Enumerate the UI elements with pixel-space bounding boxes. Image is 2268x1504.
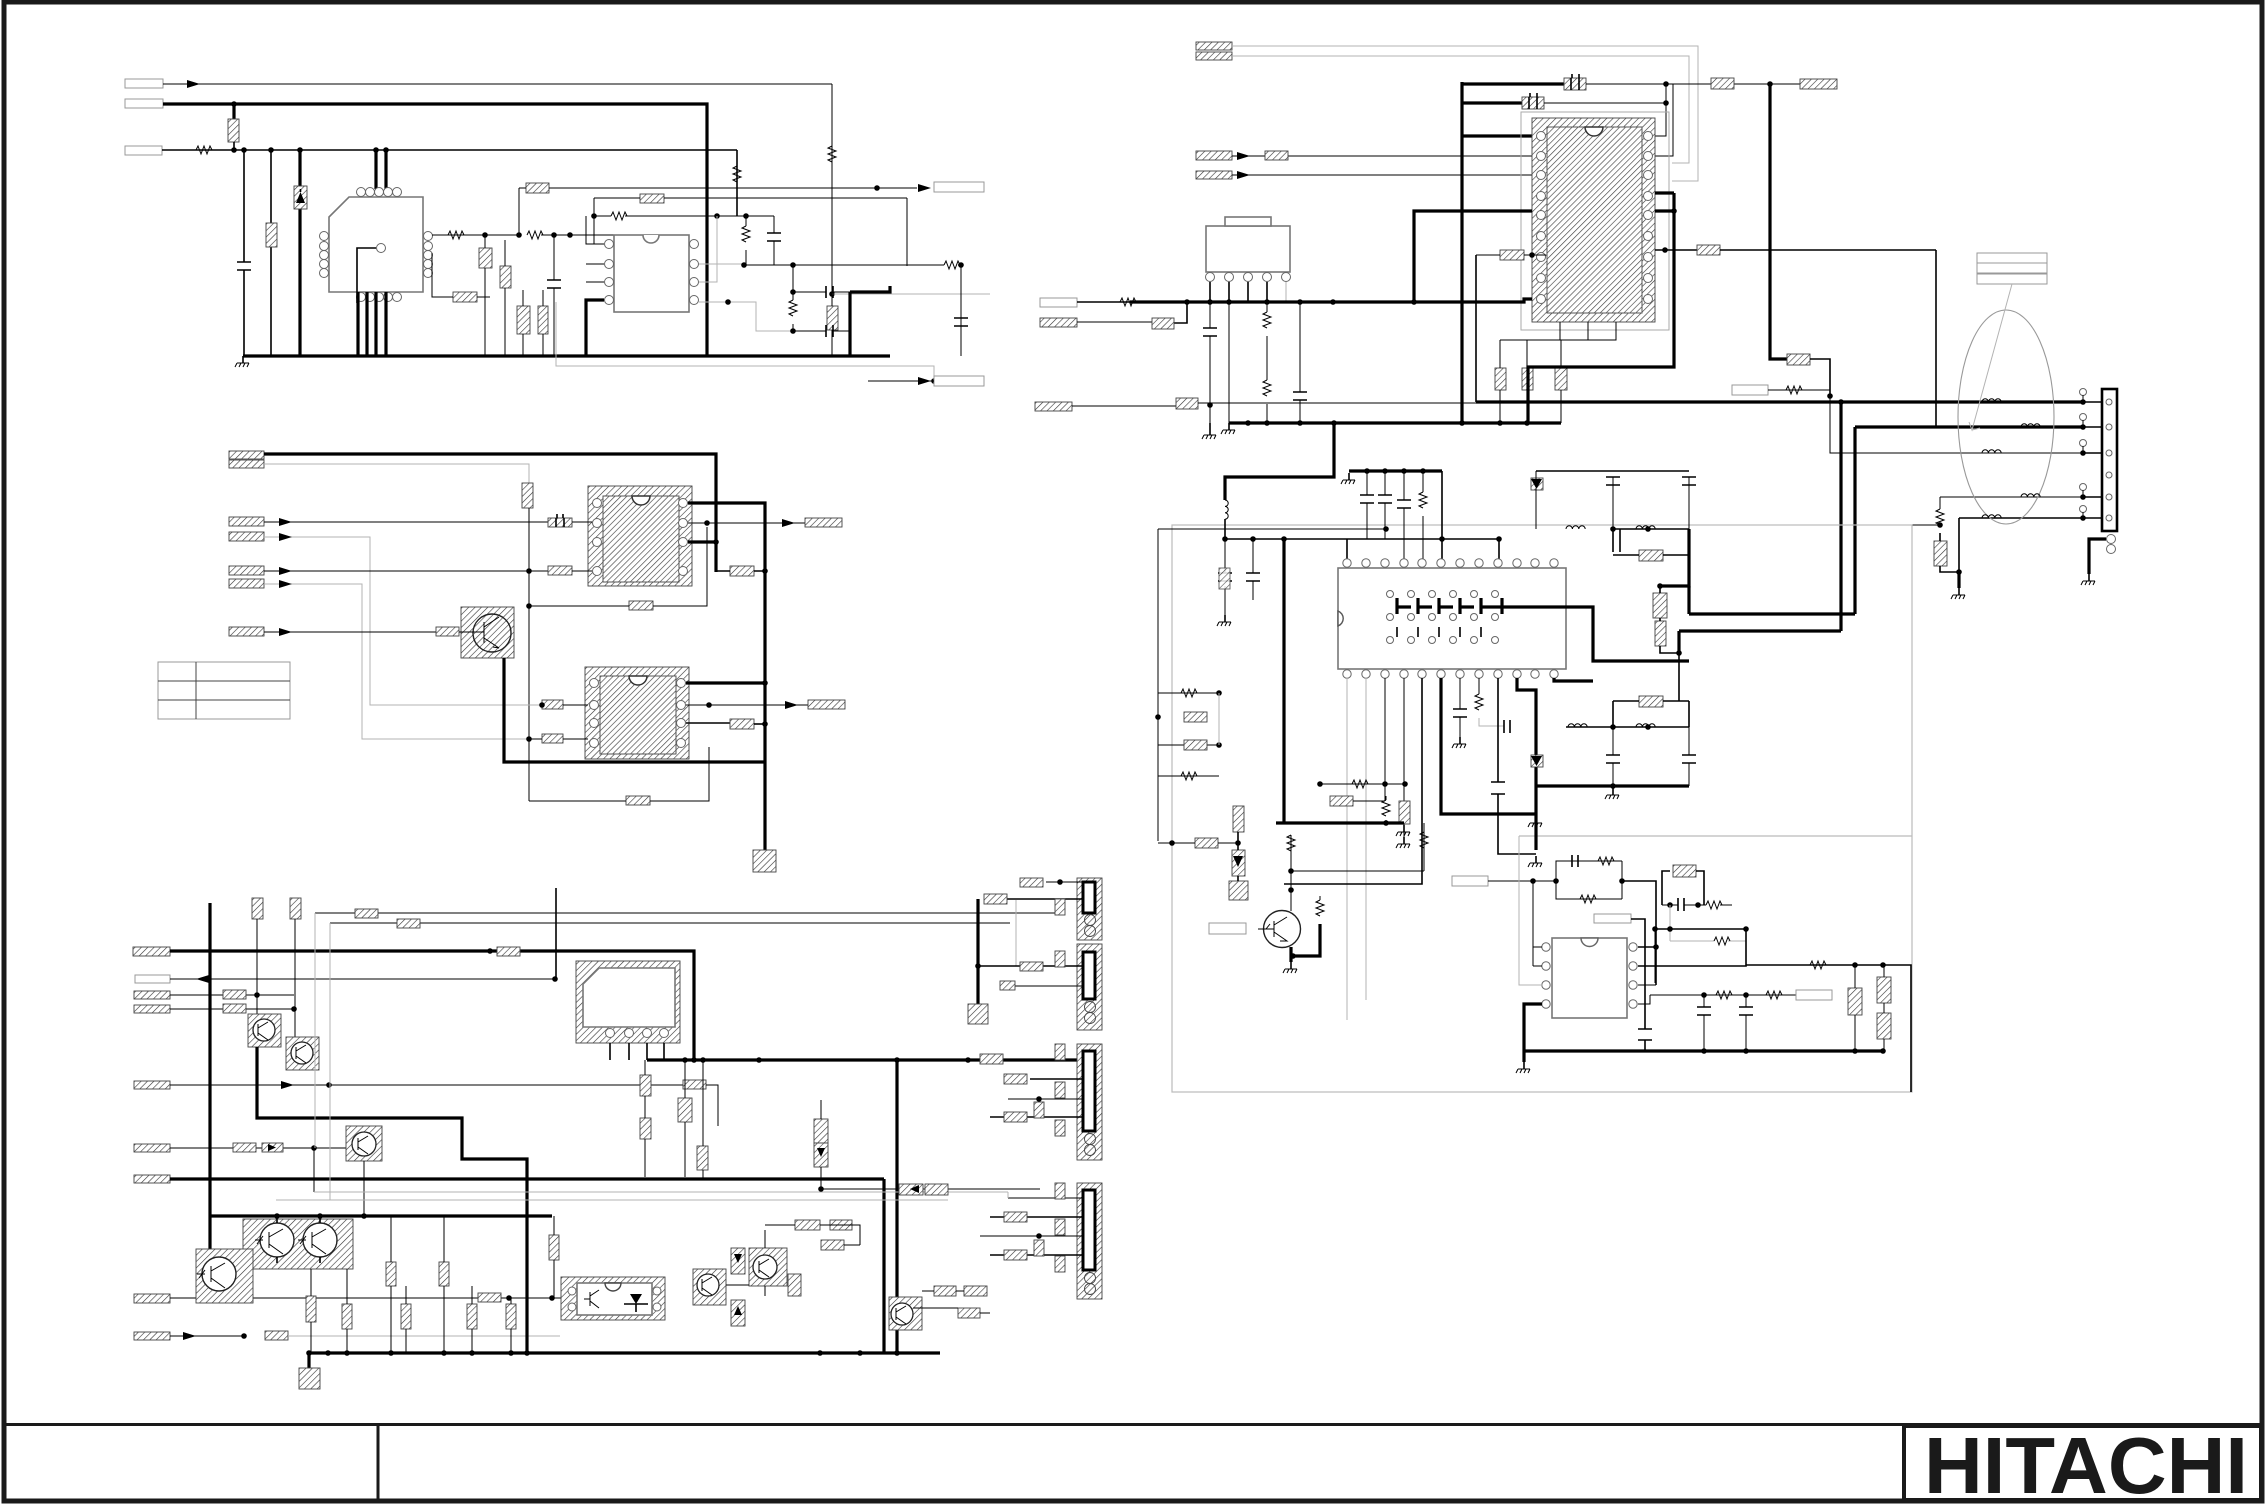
resistor R55 — [1004, 1112, 1027, 1122]
left lower: R76 — [1195, 838, 1218, 848]
capacitor C10 box — [548, 518, 572, 527]
zigzag R83 — [1598, 857, 1614, 865]
connector CN2 bar — [1083, 952, 1095, 999]
op-amp IC2 body — [614, 235, 689, 312]
capacitor C25 box — [788, 1274, 801, 1296]
ground G9 — [1403, 824, 1405, 837]
node — [526, 736, 532, 742]
arrowhead out2 — [918, 377, 931, 385]
transistor Q14 — [891, 1303, 913, 1325]
ground G19 — [1209, 423, 1211, 428]
cap C45 box — [1673, 865, 1696, 877]
node out — [874, 185, 880, 191]
capacitor C27 box — [678, 1098, 692, 1122]
diode D6 column res — [814, 1119, 828, 1143]
connector label P10 (double) — [229, 451, 264, 459]
IC3 right pins — [679, 499, 688, 508]
title block divider line — [6, 1423, 2262, 1426]
coil L8 row3 — [1982, 450, 2001, 453]
pin col x1479 — [1478, 678, 1480, 694]
transistor Q11 square — [196, 1249, 253, 1303]
IC2 right pins — [690, 240, 699, 249]
cap C36 — [1366, 471, 1368, 539]
transistor Q12 square — [749, 1248, 787, 1286]
resistor R46 — [821, 1240, 844, 1250]
resistor R58 — [355, 909, 378, 918]
IC8 bottom pin wires — [1500, 322, 1616, 340]
resistor R59 — [397, 919, 420, 928]
row y727 — [1566, 726, 1689, 728]
resistor R41 col — [306, 1296, 316, 1322]
main vertical bus thick — [208, 903, 211, 1296]
wire P13 to C11 — [264, 570, 548, 572]
cap C32 column — [1209, 302, 1211, 423]
gray drop x330 — [329, 923, 331, 1200]
vertical x1841 — [1839, 402, 1842, 631]
wire elbow — [1660, 529, 1689, 586]
IC3 pin3 wire thick — [688, 540, 716, 543]
wire — [1072, 405, 1176, 407]
zigzag R84 — [1580, 895, 1596, 903]
bottom bus — [1524, 1049, 1883, 1052]
wires Q14 — [913, 1291, 990, 1313]
resistor R8 — [526, 183, 549, 193]
IC7 pins — [1206, 273, 1215, 282]
capacitor C15 box — [730, 719, 754, 729]
left drop — [1654, 929, 1656, 983]
IC2 left pins — [605, 240, 614, 249]
resistor R9 zigzag — [527, 231, 543, 239]
resistor R64 — [1500, 250, 1524, 260]
wire P22 — [170, 994, 294, 996]
pin col x1498 — [1498, 678, 1536, 854]
IC8 left pins — [1537, 132, 1546, 141]
adj label P35 — [1732, 385, 1768, 395]
transistor Q15 — [1264, 911, 1301, 948]
diode D1 — [294, 186, 307, 209]
cluster drops — [277, 1216, 320, 1263]
CN3 circles — [1085, 1134, 1096, 1145]
wire to bus — [831, 294, 833, 356]
ground box G14 — [1229, 881, 1248, 900]
resistor R74 — [1184, 712, 1207, 722]
wire from T1 right pin — [432, 234, 519, 236]
col wire — [702, 1060, 704, 1179]
pin1 elbow — [594, 198, 604, 244]
resistor R3 zigzag — [828, 146, 836, 162]
wire on — [1544, 102, 1666, 104]
wire to pin — [563, 704, 588, 706]
vertical x556 — [555, 888, 557, 979]
wire from P1 — [163, 83, 832, 85]
gray drop x315 — [314, 913, 316, 1148]
resistor R21 — [436, 627, 459, 636]
capacitor C1 — [237, 262, 251, 270]
IC10 notch — [1581, 938, 1598, 947]
cap C48 — [1745, 995, 1747, 1051]
IC9 notch — [1338, 611, 1343, 626]
inductor L4 — [1568, 724, 1587, 727]
output label P16 — [805, 518, 842, 527]
bottom wire — [1536, 784, 1689, 787]
gray wire P14 — [264, 584, 542, 739]
capacitor C7 — [826, 286, 833, 298]
wire down to Q6 — [256, 919, 258, 1014]
ground G6 — [1957, 571, 1960, 588]
output label P17 — [808, 700, 845, 709]
node — [539, 702, 545, 708]
node wires — [1612, 528, 1614, 530]
IC4 body — [600, 676, 676, 754]
deflection yoke ellipse — [1958, 310, 2054, 524]
gray line rows — [276, 1192, 1008, 1200]
ground G5 — [1221, 423, 1235, 434]
CN3 rows — [990, 1079, 1083, 1117]
ground G15 — [1289, 947, 1292, 962]
T1 top coils — [357, 188, 366, 197]
IC7 pin wires — [1210, 282, 1267, 302]
feedback wire — [529, 747, 709, 801]
IC2 pin wires left — [586, 216, 604, 282]
svg-text:HITACHI: HITACHI — [1924, 1421, 2248, 1504]
resistor R66 — [1697, 245, 1720, 255]
wire P25 — [170, 1147, 346, 1149]
transistor Q12 — [753, 1255, 777, 1279]
input label P28 — [134, 1332, 170, 1340]
thin row y529 — [1158, 528, 1386, 530]
ground G3 stem — [307, 1353, 310, 1368]
wire to ground w cap — [1224, 539, 1226, 615]
mid stub box CN4 — [1034, 1240, 1044, 1256]
resistor R42 col — [386, 1262, 396, 1286]
pin wire R66 — [1655, 249, 1697, 251]
wire pin1 thick — [1462, 134, 1532, 137]
IC4 right pins — [677, 679, 686, 688]
output label P4 — [934, 182, 984, 192]
IC6 photodiode — [630, 1294, 642, 1304]
ground G4 box — [968, 1004, 988, 1024]
IC8 notch — [1585, 127, 1603, 136]
thick rails — [1679, 614, 1855, 631]
wire to elbow — [1622, 881, 1656, 985]
left loop rect — [1619, 529, 1621, 552]
zigzag drop — [1382, 800, 1390, 816]
optocoupler IC6 body — [577, 1283, 652, 1315]
pin col x1441 — [1441, 678, 1536, 814]
long row1 wire to CN5 — [1476, 400, 2083, 403]
main vertical supply thick — [1460, 82, 1463, 423]
res R10 box — [538, 306, 548, 334]
connector CN4 outer — [1077, 1183, 1102, 1299]
feedback R23 — [626, 796, 650, 805]
wire up to R8 — [518, 188, 520, 235]
resistor R34 — [233, 1143, 256, 1152]
input label P31 — [1196, 151, 1232, 160]
gray loop w zigzag — [1670, 905, 1746, 941]
diode D10 — [1232, 850, 1245, 876]
ground G16 — [1605, 788, 1619, 799]
IC6 notch — [605, 1283, 621, 1291]
resistor R1 — [228, 119, 239, 142]
capacitor C31 box — [1522, 97, 1544, 109]
loop wires — [1662, 871, 1704, 905]
pin col x1404 — [1403, 678, 1405, 801]
bottom pin columns — [1347, 678, 1366, 1020]
emitter thick — [1293, 924, 1320, 956]
resistor R33 — [683, 1080, 706, 1089]
IC4 pin3 wire — [686, 722, 730, 724]
connector CN3 bar — [1083, 1051, 1095, 1131]
wire row y913 — [315, 912, 1055, 914]
collector network — [1288, 868, 1294, 874]
pin stubs — [2082, 395, 2084, 518]
T1 center pin — [377, 244, 386, 253]
gray drop — [313, 1148, 315, 1192]
wire vertical to R net — [831, 84, 833, 294]
resistor R39 on bus — [980, 1054, 1003, 1064]
input label P11 — [229, 517, 264, 526]
vertical to LC — [1678, 653, 1680, 701]
wire vertical R4 branch — [270, 150, 272, 356]
three-transistor cluster outer — [243, 1219, 353, 1269]
capacitor C21 col — [401, 1304, 411, 1329]
ground G18 — [2081, 574, 2095, 585]
gray cap — [1504, 720, 1510, 733]
wire P32 — [1232, 174, 1532, 176]
resistor R67 — [1787, 354, 1810, 365]
node — [487, 948, 493, 954]
capacitor C30 box — [1564, 78, 1586, 90]
input label P13 — [229, 566, 264, 575]
op-amp IC10 body — [1552, 938, 1627, 1018]
IC10 left pins — [1542, 943, 1550, 951]
wire to ground — [1940, 533, 1959, 572]
stubs — [820, 1100, 822, 1189]
vertical x737 — [736, 150, 738, 216]
coil L7 row2 — [2021, 424, 2040, 427]
cap C33 column — [1299, 302, 1301, 423]
IC8 body — [1547, 127, 1642, 313]
transistor Q14 square — [889, 1297, 922, 1330]
CN4 rows — [980, 1198, 1083, 1236]
transistor Q6 — [253, 1019, 275, 1041]
capacitor C23 col — [506, 1304, 516, 1329]
bottom rail thick — [1276, 821, 1404, 824]
LC trap lower right — [1531, 696, 1696, 799]
inductor L3 — [1636, 526, 1655, 529]
supply rail thick — [1130, 300, 1414, 303]
IC5 under-bus columns — [640, 1075, 651, 1096]
resistor row zigzag — [1320, 783, 1405, 785]
zigzag R13 — [944, 261, 960, 269]
bottom bus thick — [309, 1351, 940, 1354]
T1 right pins — [424, 232, 433, 241]
capacitor C2 box — [479, 248, 492, 268]
pin col x1385 — [1384, 678, 1386, 801]
top cap bus — [1349, 469, 1442, 472]
transistor Q11 — [202, 1257, 236, 1291]
diode D11 — [1531, 478, 1543, 490]
resistor R32 — [223, 1004, 246, 1013]
IC4 left pins — [590, 679, 599, 688]
wire R64 — [1476, 254, 1546, 256]
diode chain col — [1233, 806, 1244, 832]
HITACHI logo box — [1904, 1426, 2261, 1500]
gray divider — [1519, 835, 1912, 837]
wire from P3 — [162, 149, 737, 151]
gray wire on — [288, 1335, 560, 1337]
supply wire thick — [170, 951, 694, 1060]
wire down to Q7 — [294, 919, 296, 1037]
resistor R20 — [522, 483, 533, 508]
wire P23 — [170, 1008, 294, 1010]
supply elbow thick — [1225, 423, 1334, 500]
gray link — [1015, 900, 1017, 966]
arrow out — [785, 701, 798, 709]
spec table 3-row — [1977, 253, 2047, 263]
capacitor C20 col — [342, 1304, 352, 1329]
connector label P3 — [125, 146, 162, 155]
cap C50 — [1572, 855, 1578, 867]
LC resonator upper — [1613, 529, 1620, 552]
IC5 body — [583, 968, 675, 1027]
cap C35 column — [1252, 539, 1254, 600]
coil L10 row5 — [1982, 515, 2001, 518]
resistor R62 — [1152, 318, 1174, 329]
IC8 right pin link thick — [1528, 193, 1674, 423]
line y1189 — [821, 1188, 1040, 1190]
ground G3 box — [299, 1368, 320, 1389]
IC8 right pins — [1644, 132, 1653, 141]
resistor R3b — [827, 306, 838, 330]
supply wire thick — [264, 454, 716, 572]
IC3 pin1 wire thick — [688, 503, 765, 847]
input label P30 (double) — [1196, 42, 1232, 50]
wire stub — [233, 142, 235, 150]
node — [704, 520, 710, 526]
zigzag R12 — [611, 212, 627, 220]
gray feedback wires — [1232, 46, 1698, 181]
T1 secondary verticals to bus — [358, 292, 386, 356]
loop below — [1613, 529, 1689, 552]
resistor R75 — [1184, 740, 1207, 750]
row y539 — [1225, 538, 1499, 540]
res R82 vert box — [1877, 1013, 1891, 1039]
T1 left pins — [320, 232, 329, 241]
zigzag R80 — [1706, 901, 1722, 909]
cap C4 box — [517, 306, 530, 334]
node — [526, 568, 532, 574]
input label P38 — [1452, 876, 1488, 886]
resistor R57 — [1004, 1250, 1027, 1260]
capacitor C11 box — [548, 566, 572, 575]
connector CN5 bar — [2102, 389, 2117, 531]
nodes — [551, 232, 557, 238]
resistor R37 top box — [252, 898, 263, 919]
CN5 inner pin circles — [2106, 399, 2112, 405]
connector CN2 outer — [1077, 944, 1102, 1030]
ground G12 — [1528, 856, 1542, 867]
resistor R40 — [925, 1184, 948, 1195]
vertical to VIF adj — [1475, 255, 1477, 402]
IC4 pin1 wire thick — [686, 681, 765, 684]
left resistor ladder — [1158, 693, 1219, 776]
transistor Q9 — [260, 1223, 294, 1257]
row y965 — [1746, 965, 1911, 1092]
pin wires — [1533, 881, 1542, 966]
pin7 wire long — [1638, 965, 1746, 966]
resistor R30 — [497, 947, 520, 956]
wire thick from P2 — [163, 104, 707, 356]
wire P15 to R21 — [264, 631, 436, 633]
output label P34 — [1800, 79, 1837, 89]
riser — [1347, 471, 1499, 564]
Q5 collector thick — [504, 658, 765, 762]
resistor R45 — [830, 1220, 852, 1230]
resistor R65 — [1176, 398, 1198, 409]
transistor Q13 — [697, 1274, 719, 1296]
transistor Q5 square — [461, 607, 514, 658]
diode D5 box — [262, 1143, 283, 1152]
wire vertical thick into IC — [298, 150, 301, 356]
gray frame around IC8 — [1521, 112, 1669, 330]
CN5 tail circles — [2107, 535, 2116, 544]
node — [713, 539, 719, 545]
res R81 vert box — [1877, 977, 1891, 1003]
stubs — [716, 570, 765, 572]
input label P32 — [1196, 171, 1232, 179]
cap C38 — [1403, 471, 1405, 564]
thick link — [850, 286, 890, 356]
vertical x907 — [906, 198, 908, 266]
node — [482, 232, 488, 238]
arrowhead out1 — [918, 184, 931, 192]
pin stub boxes CN4 — [1055, 1183, 1065, 1199]
pin col x1517 — [1517, 678, 1536, 850]
bottom bus — [243, 354, 890, 357]
input label P14 — [229, 579, 264, 588]
ground box G2 — [763, 847, 766, 852]
ground G7 — [1217, 615, 1231, 626]
wire to pin — [572, 570, 592, 572]
CN2 circles — [1085, 1002, 1096, 1013]
resistor R52 — [1020, 962, 1043, 971]
right resistor column — [1653, 593, 1667, 618]
cap C47 — [1703, 995, 1705, 1051]
LC trap upper right — [1531, 471, 1696, 561]
pin col x1460 cap — [1459, 678, 1461, 737]
base label P36 — [1209, 923, 1246, 934]
wire P39 elbow — [1631, 919, 1645, 1029]
supply to pin9 — [1414, 299, 1532, 302]
pin stub boxes CN3 — [1055, 1044, 1065, 1060]
IC3 body — [603, 496, 679, 582]
zigzag R71 — [1422, 471, 1424, 492]
resistor R68 vert — [1934, 541, 1947, 566]
gray wire from P10b — [264, 464, 529, 705]
rail elbows — [1679, 586, 1689, 653]
wire stub — [232, 104, 235, 119]
vertical wire x529 — [528, 508, 530, 801]
row y995 — [1650, 994, 1796, 996]
label P39 — [1594, 914, 1631, 923]
bus ground rail — [1229, 421, 1561, 424]
connector CN3 outer — [1077, 1044, 1102, 1160]
wire to pin — [529, 738, 588, 740]
wire across — [1198, 402, 1476, 404]
cap C46 — [1678, 898, 1684, 911]
node row y929 — [1655, 928, 1746, 930]
